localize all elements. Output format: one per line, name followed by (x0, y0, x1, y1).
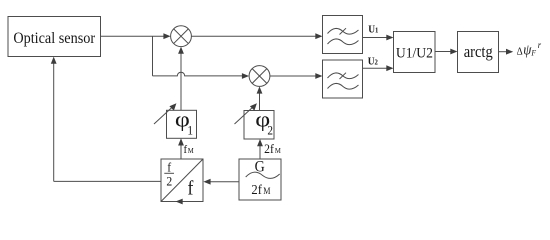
arrowhead into U1/U2 top (386, 35, 393, 41)
svg-text:U2: U2 (368, 56, 379, 68)
svg-text:ψ: ψ (523, 42, 532, 58)
svg-text:2: 2 (166, 174, 172, 189)
arrowhead into U1/U2 bottom (386, 65, 393, 71)
filter F1 wave bottom (328, 39, 359, 45)
wire filter F2 to divider U1/U2 (363, 67, 391, 69)
arrowhead on f/2 bottom edge (176, 199, 183, 205)
arctg box (458, 32, 499, 73)
svg-text:F: F (530, 48, 536, 57)
arrowhead variable PHI2 (250, 103, 257, 110)
arrowhead feedback into sensor (51, 57, 57, 64)
wire sensor to mixer M1 (101, 35, 168, 37)
mixer M2 (249, 66, 270, 87)
filter F1 box (323, 16, 363, 54)
wire mixer M1 to filter F1 (191, 35, 319, 37)
svg-text:G: G (255, 159, 265, 176)
arrowhead G into f/2 (203, 179, 210, 185)
phase shifter box PHI1 (167, 110, 197, 138)
wire filter F1 to divider U1/U2 (363, 37, 391, 39)
svg-text:U1/U2: U1/U2 (396, 45, 433, 62)
variable arrow PHI1 (154, 106, 174, 124)
filter F2 wave top (328, 73, 359, 79)
svg-text:2f: 2f (251, 182, 262, 198)
arrowhead PHI1 into mixer M1 bottom (178, 47, 184, 54)
svg-text:2f: 2f (264, 141, 275, 156)
divider box U1/U2 (394, 32, 436, 73)
filter F1 wave top (328, 28, 359, 34)
svg-text:2: 2 (267, 123, 273, 138)
svg-text:Optical sensor: Optical sensor (13, 30, 95, 47)
divider diagonal (161, 159, 203, 202)
arrowhead into mixer M1 left (163, 33, 170, 39)
wire mixer M2 to filter F2 (270, 75, 319, 77)
svg-text:Δ: Δ (517, 46, 524, 58)
svg-text:f: f (184, 144, 188, 157)
generator G box (239, 159, 281, 200)
feedback wire vertical to sensor (53, 60, 55, 181)
arrowhead output (506, 49, 513, 55)
arrowhead into filter F1 (315, 33, 322, 39)
svg-text:1: 1 (187, 123, 193, 138)
filter F2 wave bottom (328, 83, 359, 89)
svg-text:M: M (188, 147, 195, 155)
feedback wire horizontal (54, 180, 161, 182)
wire branch to mixer M2 with hop (153, 72, 246, 76)
divider f/2 box (161, 159, 203, 202)
optical sensor box (8, 17, 101, 57)
arrowhead into arctg (450, 49, 457, 55)
wire PHI2 to mixer M2 (259, 90, 261, 111)
svg-text:f: f (188, 178, 195, 200)
fraction bar f/2 (164, 172, 174, 174)
wire branch vertical (152, 36, 154, 76)
arrowhead variable PHI1 (169, 103, 176, 110)
arrowhead PHI2 into mixer M2 bottom (257, 86, 263, 93)
svg-text:arctg: arctg (464, 43, 493, 61)
svg-text:M: M (263, 186, 271, 197)
svg-text:M: M (275, 147, 282, 155)
svg-text:r: r (538, 40, 542, 51)
filter F1 cross tick (340, 28, 347, 34)
svg-text:U1: U1 (368, 24, 379, 36)
wire G to divider f/2 (207, 181, 239, 183)
arrowhead into PHI1 bottom (178, 138, 184, 145)
generator wave (246, 172, 280, 178)
filter F2 box (323, 60, 363, 98)
wire divider f/2 to PHI1 (180, 142, 182, 159)
wire PHI1 to mixer M1 (180, 50, 182, 110)
wire generator G to PHI2 (259, 142, 261, 159)
variable arrow PHI2 (235, 106, 255, 124)
phase shifter box PHI2 (244, 111, 274, 140)
arrowhead into filter F2 (315, 73, 322, 79)
filter F2 cross tick (340, 73, 347, 79)
arrowhead into PHI2 bottom (257, 139, 263, 146)
mixer M1 (171, 26, 192, 47)
wire arctg to output (499, 51, 510, 53)
arrowhead into mixer M2 left (242, 73, 249, 79)
wire U1/U2 to arctg (435, 51, 454, 53)
